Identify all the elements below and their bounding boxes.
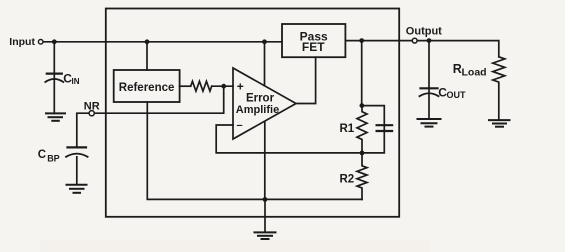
wire amp output to Pass FET gate (296, 57, 316, 103)
wire to R1 top (361, 41, 363, 106)
resistor (reference to amp, horizontal squiggle) (191, 81, 212, 91)
wire NR net (77, 86, 224, 147)
capacitor feed-forward across R1 (362, 106, 384, 153)
ground (main, below box) (255, 231, 276, 233)
svg-text:NR: NR (84, 101, 100, 113)
wire ground stem (264, 199, 266, 232)
svg-text:Reference: Reference (119, 82, 175, 94)
svg-text:OUT: OUT (447, 90, 467, 100)
ground (below C_BP) (67, 184, 87, 186)
wire input rail (43, 41, 282, 43)
block Pass FET (282, 24, 345, 57)
svg-text:IN: IN (72, 77, 80, 86)
svg-text:R1: R1 (340, 123, 355, 135)
junction dot (R1/R2 divider) (360, 151, 365, 156)
wire amp V+ supply (264, 42, 266, 86)
svg-text:Amplifie: Amplifie (236, 104, 279, 116)
junction dot (+ input / NR node) (221, 84, 226, 89)
wire amp ground (264, 121, 266, 199)
wire reference top feed (146, 42, 148, 70)
wire output rail (345, 41, 498, 57)
ground (below C_OUT) (418, 118, 441, 120)
block Reference (114, 70, 180, 102)
svg-text:Load: Load (462, 67, 487, 79)
junction dot (ground rail) (263, 197, 268, 202)
node NR pin circle (89, 111, 94, 116)
junction dot (Reference tap) (145, 39, 150, 44)
svg-text:BP: BP (47, 153, 60, 163)
svg-text:Input: Input (9, 36, 35, 48)
junction dot (C_IN tap) (52, 39, 57, 44)
svg-text:–: – (236, 120, 242, 132)
capacitor C_IN (53, 42, 55, 114)
wire to amp + input (212, 85, 233, 87)
svg-text:FET: FET (302, 40, 325, 54)
ground (below C_IN) (46, 112, 65, 114)
wire reference output (180, 85, 191, 87)
svg-text:Error: Error (246, 93, 275, 105)
svg-text:+: + (237, 79, 244, 93)
IC outline box U1 (106, 9, 399, 217)
resistor R2 (357, 153, 367, 200)
wire internal ground rail (147, 102, 362, 199)
svg-text:R: R (453, 62, 462, 76)
junction dot (R1 tap) (359, 38, 364, 43)
op-amp U2 Error Amplifier triangle (233, 68, 296, 139)
capacitor C_OUT (428, 41, 430, 119)
node Output terminal (412, 38, 417, 43)
junction dot (C_OUT tap) (427, 38, 432, 43)
junction dot (amp V+ tap) (262, 39, 267, 44)
resistor R1 (357, 106, 367, 153)
node Input terminal (38, 40, 43, 45)
junction dot (R1 top / cap) (360, 103, 365, 108)
svg-text:Output: Output (406, 26, 442, 38)
ground (below R_Load) (489, 119, 510, 121)
capacitor C_BP (68, 146, 87, 148)
svg-text:R2: R2 (340, 173, 355, 185)
wire amp - input feedback (216, 125, 362, 153)
resistor R_Load (493, 57, 505, 120)
svg-text:C: C (38, 149, 46, 161)
